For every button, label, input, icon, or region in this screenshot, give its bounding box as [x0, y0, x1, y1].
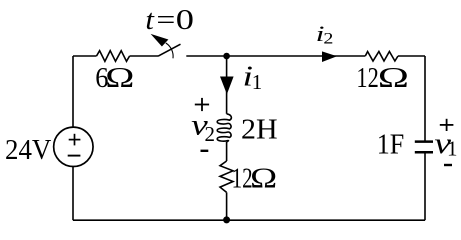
svg-text:Ω: Ω	[250, 163, 277, 194]
svg-text:1F: 1F	[377, 129, 404, 160]
svg-text:24V: 24V	[5, 134, 51, 166]
svg-text:=: =	[156, 4, 175, 36]
svg-text:Ω: Ω	[378, 62, 409, 93]
svg-text:0: 0	[176, 5, 194, 36]
svg-text:2H: 2H	[241, 114, 278, 145]
svg-text:Ω: Ω	[105, 63, 134, 93]
svg-text:1: 1	[447, 137, 458, 161]
svg-text:12: 12	[356, 63, 378, 94]
svg-text:1: 1	[252, 70, 263, 94]
svg-text:t: t	[145, 5, 154, 35]
svg-text:2: 2	[205, 122, 216, 146]
svg-text:2: 2	[323, 30, 333, 48]
